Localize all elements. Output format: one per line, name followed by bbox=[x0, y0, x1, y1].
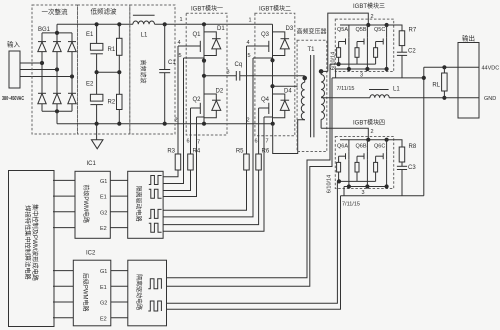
svg-text:R1: R1 bbox=[108, 47, 116, 53]
waveform glyph driver1 out2 bbox=[149, 189, 162, 198]
IGBT module 2 dashed box bbox=[255, 13, 295, 136]
svg-text:R6: R6 bbox=[262, 149, 270, 155]
waveform glyph driver2 row1 bbox=[148, 279, 161, 289]
waveform glyph driver1 out1 bbox=[149, 176, 162, 185]
low-frequency filter dashed box 低频滤波 bbox=[78, 5, 130, 134]
node mid at R-column bbox=[117, 70, 121, 74]
wire box to IC1 line2 bbox=[53, 195, 75, 197]
node RL bottom bbox=[442, 96, 446, 100]
wire module3 output node 3 bbox=[332, 77, 424, 79]
node Q3 source bbox=[270, 58, 274, 62]
svg-text:6/10/14: 6/10/14 bbox=[331, 52, 337, 70]
wire IC2 to driver2 line4 bbox=[111, 317, 128, 319]
svg-text:4: 4 bbox=[178, 40, 181, 46]
wire R4 riser to pin6 bbox=[190, 108, 192, 154]
svg-text:高频滤波: 高频滤波 bbox=[139, 59, 147, 83]
svg-text:Q3: Q3 bbox=[261, 32, 270, 38]
wire bridge negative drop bbox=[56, 111, 58, 123]
svg-text:L1: L1 bbox=[141, 33, 148, 39]
node Q5A source bbox=[347, 67, 351, 71]
svg-text:1: 1 bbox=[249, 18, 252, 24]
wire driver2 outA to module3 gate rail bbox=[167, 64, 331, 278]
svg-text:IGBT模块一: IGBT模块一 bbox=[191, 5, 223, 13]
svg-text:R7: R7 bbox=[409, 28, 417, 34]
isolated driver 2 box 隔离驱动电路 bbox=[128, 260, 167, 326]
svg-text:G1: G1 bbox=[100, 269, 107, 275]
resistor Q5A gate bbox=[338, 42, 340, 48]
svg-text:Q4: Q4 bbox=[261, 97, 270, 103]
svg-text:5: 5 bbox=[179, 53, 182, 59]
wire module3 pin2 route bbox=[328, 13, 369, 71]
wire driver1 out2 to pin5 bbox=[163, 58, 183, 184]
node module2 mid tap bbox=[270, 84, 274, 88]
svg-text:集中控制及PWM波形成电路: 集中控制及PWM波形成电路 bbox=[31, 204, 39, 282]
wire driver1 out1 to R3 bbox=[163, 170, 178, 177]
node bottom bus at E2 bbox=[95, 122, 99, 126]
svg-text:前级PWM电路: 前级PWM电路 bbox=[82, 184, 90, 223]
input terminal box bbox=[9, 51, 20, 88]
wire driver1 out8 to module2 pin7 bbox=[163, 117, 264, 231]
wire IC2 to driver2 line2 bbox=[111, 285, 128, 287]
wire Q4 emitter pin7 lead bbox=[264, 116, 273, 118]
IGBT module 3 dashed box bbox=[335, 19, 393, 71]
wire module4 gate rail bbox=[337, 180, 375, 182]
svg-text:IGBT模块三: IGBT模块三 bbox=[353, 2, 385, 10]
wire box to IC2 line2 bbox=[53, 285, 73, 287]
node module4 drain rail pin2 bbox=[366, 138, 370, 142]
wire 44VDC rail bbox=[424, 66, 479, 68]
svg-text:L1: L1 bbox=[393, 87, 400, 93]
svg-text:D3: D3 bbox=[286, 26, 294, 32]
wire GND rail bbox=[389, 97, 479, 99]
wire phase C bbox=[20, 76, 72, 78]
wire IC2 to driver2 line1 bbox=[111, 270, 128, 272]
node Q5C source bbox=[385, 67, 389, 71]
high-frequency filter dashed box 高频滤波 bbox=[130, 5, 175, 134]
svg-text:G2: G2 bbox=[100, 210, 107, 216]
resistor Q5C gate bbox=[375, 42, 377, 48]
waveform glyph driver2 row2 bbox=[148, 301, 161, 311]
svg-text:5: 5 bbox=[248, 53, 251, 59]
wire bridge top rail bbox=[42, 32, 72, 34]
wire module2 mid to primary bbox=[273, 85, 298, 87]
node module3 gate rail bbox=[337, 62, 341, 66]
wire R6 riser to module2 pin6 bbox=[258, 108, 260, 154]
node Q6C source bbox=[385, 184, 389, 188]
node bridge bottom tap bbox=[55, 109, 59, 113]
diode D-bot-2 bbox=[53, 92, 61, 94]
resistor Q5B gate bbox=[356, 42, 358, 48]
wire module3 source rail bbox=[336, 68, 387, 70]
waveform glyph driver1 out4 bbox=[149, 223, 162, 232]
svg-text:IC1: IC1 bbox=[87, 161, 97, 167]
svg-text:后级PWM电路: 后级PWM电路 bbox=[82, 273, 90, 312]
wire secondary top to module3 pin2 riser bbox=[321, 70, 328, 72]
wire driver1 out4 to pin7 bbox=[163, 117, 196, 197]
svg-text:低频滤波: 低频滤波 bbox=[91, 7, 118, 16]
transformer core bbox=[310, 55, 312, 137]
node bridge top tap bbox=[55, 31, 59, 35]
wire top DC bus bbox=[57, 23, 133, 25]
svg-text:Cq: Cq bbox=[235, 62, 243, 68]
wire driver2 outC to module4 gate rail bbox=[167, 181, 338, 303]
svg-text:44VDC: 44VDC bbox=[482, 66, 500, 72]
IGBT module 4 dashed box bbox=[335, 137, 393, 189]
node phase A junction bbox=[40, 61, 44, 65]
wire Q3 emitter pin5 lead bbox=[253, 57, 273, 59]
wire bridge column 2 bbox=[56, 33, 58, 111]
wire box to IC2 line1 bbox=[53, 270, 73, 272]
node Q4 emitter bus end bbox=[271, 122, 275, 126]
node RL top bbox=[442, 65, 446, 69]
diode D-top-2 bbox=[53, 41, 61, 43]
svg-text:E2: E2 bbox=[100, 316, 107, 322]
svg-text:Q5C: Q5C bbox=[374, 27, 385, 33]
svg-text:隔离驱动电路: 隔离驱动电路 bbox=[135, 274, 143, 310]
wire box to IC1 line3 bbox=[53, 211, 75, 213]
wire R3 riser to pin4 bbox=[177, 46, 179, 154]
svg-text:2: 2 bbox=[371, 129, 374, 135]
svg-text:2: 2 bbox=[175, 118, 178, 124]
wire IC1 to driver1 line3 bbox=[110, 211, 127, 213]
wire module4 source rail drop bbox=[343, 187, 345, 196]
node module4 drain rail R8 bbox=[385, 138, 389, 142]
wire module3 drain rail bbox=[340, 24, 387, 26]
wire bridge column 3 bbox=[71, 33, 73, 111]
node module1 mid tap bbox=[202, 74, 206, 78]
control master box 焊接特性集中控制 bbox=[9, 171, 55, 327]
primary rectifier dashed box 一次整流 bbox=[32, 5, 78, 134]
wire driver1 out5 to R5 bbox=[163, 170, 246, 210]
svg-text:D1: D1 bbox=[217, 26, 225, 32]
svg-text:Q2: Q2 bbox=[193, 97, 202, 103]
node module3 drain rail R7 bbox=[385, 23, 389, 27]
svg-text:6/10/14: 6/10/14 bbox=[327, 175, 333, 193]
svg-text:380~450VAC: 380~450VAC bbox=[2, 96, 24, 102]
wire IC1 to driver1 line2 bbox=[110, 195, 127, 197]
svg-text:一次整流: 一次整流 bbox=[42, 7, 69, 16]
wire box to IC2 line4 bbox=[53, 317, 73, 319]
svg-text:Q6A: Q6A bbox=[337, 144, 348, 150]
wire secondary bottom to module4 pin2 bbox=[321, 128, 368, 139]
wire IC1 to driver1 line1 bbox=[110, 179, 127, 181]
transformer T1 primary winding bbox=[304, 76, 306, 83]
node Q5B source bbox=[365, 67, 369, 71]
node Q1 drain on top bus bbox=[202, 22, 206, 26]
resistor Q6C gate bbox=[375, 156, 377, 162]
svg-text:高频变压器: 高频变压器 bbox=[296, 28, 326, 36]
svg-text:R3: R3 bbox=[167, 149, 175, 155]
isolated driver 1 box 隔离驱动电路 bbox=[128, 171, 163, 238]
node mid at E-column bbox=[95, 70, 99, 74]
wire driver1 out7 to R6 bbox=[163, 170, 259, 225]
diode D-top-1 bbox=[38, 41, 46, 43]
transformer T1 secondary winding bbox=[320, 71, 322, 74]
wire module2 midpoint bbox=[272, 60, 274, 102]
wire E1-R1 midpoint link bbox=[97, 71, 120, 73]
wire module3 gate rail bbox=[330, 63, 376, 65]
wire Q1 emitter pin5 lead bbox=[184, 57, 205, 59]
node rectified output join bbox=[422, 76, 426, 80]
svg-text:Q6B: Q6B bbox=[356, 144, 367, 150]
node bottom bus at C1 bbox=[163, 122, 167, 126]
wire box to IC2 line3 bbox=[53, 301, 73, 303]
wire bridge positive riser bbox=[56, 24, 58, 33]
svg-text:4: 4 bbox=[247, 40, 250, 46]
svg-text:IGBT模块二: IGBT模块二 bbox=[259, 5, 291, 13]
svg-text:Q5A: Q5A bbox=[337, 27, 348, 33]
waveform glyph driver1 out3 bbox=[149, 209, 162, 218]
node phase B junction bbox=[55, 67, 59, 71]
svg-text:3: 3 bbox=[227, 70, 230, 76]
node Q6A source bbox=[347, 184, 351, 188]
resistor Q6A gate bbox=[338, 156, 340, 162]
svg-text:E1: E1 bbox=[100, 285, 107, 291]
wire module4 drain rail bbox=[340, 139, 387, 141]
wire driver1 out6 to module2 pin5 bbox=[163, 58, 253, 217]
svg-text:6: 6 bbox=[187, 139, 190, 145]
svg-text:R5: R5 bbox=[236, 149, 244, 155]
wire phase A bbox=[20, 62, 42, 64]
wire Q2 emitter pin7 lead bbox=[197, 116, 205, 118]
svg-text:T1: T1 bbox=[308, 47, 316, 53]
svg-text:C2: C2 bbox=[408, 49, 416, 55]
svg-text:BG1: BG1 bbox=[38, 27, 51, 33]
node Q6B source bbox=[365, 184, 369, 188]
svg-text:输出: 输出 bbox=[462, 34, 475, 43]
svg-text:Q6C: Q6C bbox=[374, 144, 385, 150]
node top bus at C1 bbox=[163, 22, 167, 26]
wire box to IC1 line4 bbox=[53, 227, 75, 229]
svg-text:IGBT模块四: IGBT模块四 bbox=[353, 119, 385, 127]
wire bridge bottom rail bbox=[42, 110, 72, 112]
wire bottom DC bus bbox=[57, 123, 273, 125]
diode D-bot-3 bbox=[68, 92, 76, 94]
svg-text:E2: E2 bbox=[100, 226, 107, 232]
wire module1 midpoint bbox=[203, 61, 205, 102]
node module4 gate rail bbox=[337, 179, 341, 183]
svg-text:1: 1 bbox=[180, 17, 183, 23]
diode D-top-3 bbox=[68, 41, 76, 43]
node secondary top bbox=[319, 69, 324, 74]
node bottom bus at R2 bbox=[117, 122, 121, 126]
svg-text:R8: R8 bbox=[409, 144, 417, 150]
IGBT module 1 dashed box bbox=[186, 13, 227, 135]
svg-text:RL: RL bbox=[432, 83, 440, 89]
svg-text:输入: 输入 bbox=[7, 40, 21, 49]
svg-text:R2: R2 bbox=[108, 100, 116, 106]
svg-text:焊接特性集中控制算法电路: 焊接特性集中控制算法电路 bbox=[23, 205, 31, 280]
svg-text:3: 3 bbox=[362, 190, 365, 196]
wire driver1 out3 to R4 bbox=[163, 170, 190, 191]
svg-text:C3: C3 bbox=[408, 165, 416, 171]
wire box to IC1 line1 bbox=[53, 179, 75, 181]
wire module4 output node 3 bbox=[341, 195, 424, 197]
node top bus at E1 bbox=[95, 22, 99, 26]
svg-text:IC2: IC2 bbox=[86, 251, 96, 257]
wire phase B bbox=[20, 69, 57, 71]
svg-text:隔离驱动电路: 隔离驱动电路 bbox=[135, 186, 143, 222]
wire module3 source rail drop bbox=[335, 69, 337, 78]
wire IC2 to driver2 line3 bbox=[111, 301, 128, 303]
node phase C junction bbox=[70, 74, 74, 78]
wire Cq to transformer primary bbox=[240, 75, 305, 77]
svg-text:G1: G1 bbox=[100, 179, 107, 185]
svg-text:Q5B: Q5B bbox=[356, 27, 367, 33]
wire R5 riser to module2 pin4 bbox=[246, 46, 248, 154]
node Q2 emitter on bottom bus bbox=[202, 122, 206, 126]
wire transformer center tap bbox=[321, 97, 370, 99]
svg-text:G2: G2 bbox=[100, 301, 107, 307]
node top bus at R1 bbox=[117, 22, 121, 26]
svg-text:Q1: Q1 bbox=[193, 32, 202, 38]
wire rectified output vertical bbox=[423, 67, 425, 196]
svg-text:7: 7 bbox=[266, 139, 269, 145]
node module3 drain rail pin2 bbox=[366, 23, 370, 27]
svg-text:7/11/15: 7/11/15 bbox=[342, 202, 360, 208]
wire driver2 outB to module3 source net bbox=[167, 78, 333, 286]
svg-text:7/11/15: 7/11/15 bbox=[337, 86, 355, 92]
node primary top bbox=[302, 76, 307, 81]
svg-text:6: 6 bbox=[255, 139, 258, 145]
wire IC1 to driver1 line4 bbox=[110, 227, 127, 229]
node Q1 source bbox=[202, 59, 206, 63]
diode D-bot-1 bbox=[38, 92, 46, 94]
wire driver2 outD to module4 source net bbox=[167, 196, 341, 309]
ground bbox=[96, 124, 98, 140]
svg-text:E1: E1 bbox=[100, 195, 107, 201]
svg-text:E2: E2 bbox=[86, 82, 94, 88]
wire bus to primary bottom loop bbox=[273, 120, 305, 154]
svg-text:7: 7 bbox=[197, 140, 200, 146]
svg-text:E1: E1 bbox=[86, 32, 94, 38]
wire module4 source rail bbox=[344, 186, 387, 188]
svg-text:GND: GND bbox=[484, 96, 496, 102]
wire bridge column 1 bbox=[41, 33, 43, 111]
svg-text:C1: C1 bbox=[168, 60, 176, 66]
resistor Q6B gate bbox=[356, 156, 358, 162]
transformer dashed box 高频变压器 bbox=[297, 40, 327, 151]
